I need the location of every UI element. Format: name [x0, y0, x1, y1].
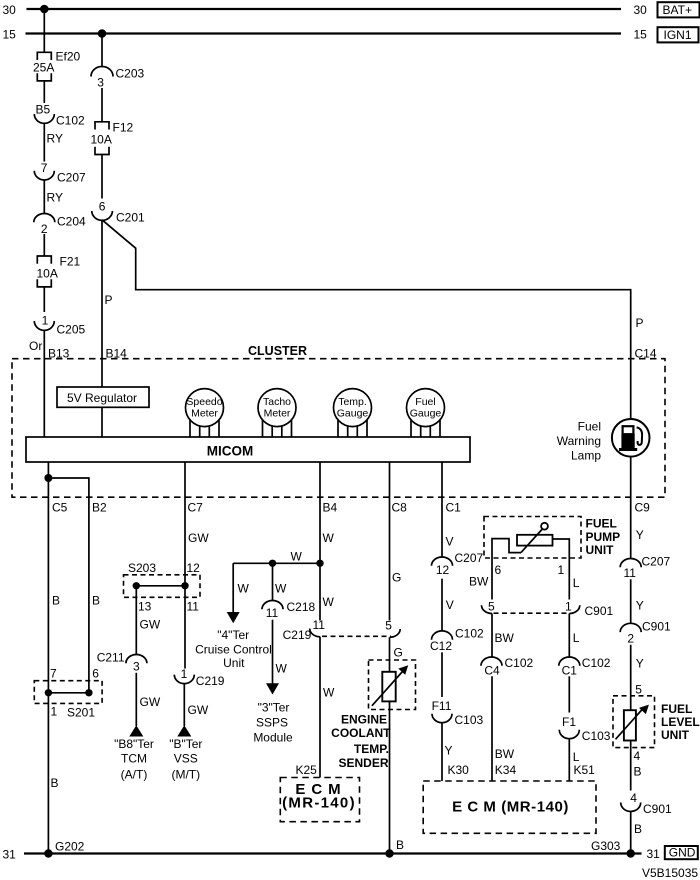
connector C205 pin 1	[34, 314, 85, 337]
wire GW C7 to S203	[185, 462, 209, 669]
svg-text:15: 15	[3, 28, 17, 42]
svg-text:C901: C901	[585, 604, 614, 618]
fuel gauge legs	[411, 407, 440, 437]
svg-text:B: B	[396, 838, 404, 852]
wire branch to B2	[48, 478, 89, 693]
svg-text:C218: C218	[287, 600, 316, 614]
wire Y C103 to ECM K30	[442, 723, 453, 781]
svg-text:(A/T): (A/T)	[121, 767, 148, 781]
IGN1 terminal box	[658, 27, 699, 42]
svg-text:13: 13	[138, 599, 152, 613]
svg-text:S201: S201	[67, 706, 95, 720]
svg-text:11: 11	[266, 606, 279, 620]
connector C102 pin C12	[430, 626, 484, 653]
svg-text:Meter: Meter	[191, 408, 218, 420]
svg-text:W: W	[276, 662, 288, 676]
wire GW C211 to TCM arrow	[136, 673, 161, 726]
svg-text:VSS: VSS	[174, 751, 198, 765]
wire L pin1 to C901	[569, 558, 580, 600]
wire F12 to C201	[101, 155, 103, 199]
svg-text:Temp.: Temp.	[338, 396, 367, 408]
fuse F21 10A	[37, 255, 81, 287]
tachometer gauge	[258, 389, 296, 427]
svg-text:C901: C901	[642, 619, 671, 633]
wire V C1 to C207	[442, 462, 454, 557]
svg-text:CLUSTER: CLUSTER	[248, 344, 307, 358]
svg-text:5V Regulator: 5V Regulator	[67, 391, 137, 405]
connector C103 pin F1	[559, 715, 611, 743]
svg-text:C207: C207	[57, 171, 86, 185]
svg-text:10A: 10A	[37, 267, 58, 281]
svg-text:C203: C203	[116, 67, 145, 81]
svg-text:31: 31	[647, 847, 661, 861]
connector C219 dashed line	[322, 635, 391, 637]
svg-text:GW: GW	[140, 695, 161, 709]
svg-text:B: B	[52, 594, 60, 608]
bus 15 line	[3, 28, 648, 42]
svg-text:E C M (MR-140): E C M (MR-140)	[452, 799, 569, 816]
svg-text:Y: Y	[636, 599, 644, 613]
svg-text:"4"Ter: "4"Ter	[217, 628, 249, 642]
svg-text:PUMP: PUMP	[586, 530, 621, 544]
svg-text:C102: C102	[582, 656, 611, 670]
svg-text:B: B	[92, 594, 100, 608]
wire BW pin6 to C901	[469, 558, 492, 600]
svg-text:C103: C103	[455, 713, 484, 727]
svg-text:30: 30	[634, 3, 648, 17]
ECM (MR-140) box right	[423, 781, 596, 833]
svg-text:UNIT: UNIT	[661, 728, 690, 742]
svg-text:C9: C9	[635, 501, 651, 515]
wire W B4 upper	[320, 462, 335, 621]
svg-text:GW: GW	[188, 703, 209, 717]
node W crossbar at C218 branch	[269, 560, 276, 567]
svg-text:7: 7	[41, 161, 48, 175]
svg-text:L: L	[573, 750, 580, 764]
wire RY C102 to C207	[44, 123, 63, 161]
svg-text:W: W	[238, 581, 250, 595]
svg-text:C8: C8	[392, 501, 408, 515]
svg-text:C211: C211	[97, 651, 125, 665]
svg-text:TCM: TCM	[121, 751, 147, 765]
arrow terminal to VSS	[177, 725, 191, 736]
svg-text:1: 1	[181, 667, 188, 681]
svg-text:TEMP.: TEMP.	[354, 742, 389, 756]
svg-text:Gauge: Gauge	[410, 408, 442, 420]
svg-text:Or: Or	[29, 339, 42, 353]
fuel pump wiper wire	[492, 539, 521, 558]
svg-text:C4: C4	[484, 663, 500, 677]
wire GW S203 to C211	[136, 586, 161, 655]
FUEL PUMP UNIT box	[484, 517, 620, 559]
svg-text:C1: C1	[562, 663, 578, 677]
svg-text:C7: C7	[188, 501, 204, 515]
wire BW C901 to C102	[492, 614, 515, 658]
svg-text:K34: K34	[495, 763, 517, 777]
svg-text:Module: Module	[253, 730, 293, 744]
wire BW C102 to ECM K34	[492, 676, 515, 781]
svg-text:C14: C14	[635, 347, 657, 361]
svg-text:MICOM: MICOM	[207, 444, 254, 459]
arrow terminal to SSPS	[266, 683, 279, 694]
svg-text:B4: B4	[323, 501, 338, 515]
splice S201 box	[34, 681, 102, 720]
svg-text:K25: K25	[296, 763, 318, 777]
svg-text:RY: RY	[47, 132, 63, 146]
temp gauge legs	[338, 407, 367, 437]
svg-text:"B"Ter: "B"Ter	[169, 737, 202, 751]
svg-text:L: L	[573, 576, 580, 590]
wire Y C207 to C901	[631, 579, 644, 623]
connector C901 dashed line	[494, 612, 569, 614]
FUEL LEVEL UNIT box	[613, 696, 700, 748]
svg-text:W: W	[275, 581, 287, 595]
svg-text:B: B	[634, 822, 642, 836]
svg-text:2: 2	[41, 222, 48, 236]
svg-text:15: 15	[634, 28, 648, 42]
S201 left node	[45, 689, 52, 696]
fuel pump resistor wire	[553, 539, 570, 558]
svg-text:G: G	[394, 646, 403, 660]
wire bus30 to fuse Ef20	[43, 9, 45, 52]
svg-text:3: 3	[97, 76, 104, 90]
wire GW C219 to VSS arrow	[184, 684, 209, 727]
connector C203 pin 3	[91, 67, 145, 90]
label ENGINE COOLANT TEMP. SENDER	[331, 712, 391, 770]
wire C5 down to S201	[47, 478, 49, 693]
svg-text:Speedo: Speedo	[186, 396, 222, 408]
svg-text:G303: G303	[591, 839, 621, 853]
label B8 Ter TCM (A/T)	[114, 737, 154, 782]
svg-text:K51: K51	[574, 763, 596, 777]
svg-text:C102: C102	[505, 656, 534, 670]
svg-text:C103: C103	[582, 729, 611, 743]
svg-text:Y: Y	[445, 744, 453, 758]
wire W to cruise control arrow	[233, 563, 249, 612]
bus 30 line	[3, 3, 648, 17]
svg-text:V: V	[446, 534, 454, 548]
svg-text:12: 12	[187, 561, 201, 575]
connector C102 pin B5	[34, 103, 85, 128]
svg-text:6: 6	[92, 667, 99, 681]
S201 splice bar	[48, 692, 89, 694]
GND terminal box	[665, 846, 698, 860]
svg-text:LEVEL: LEVEL	[661, 715, 700, 729]
wire Or C205 to cluster pin B13	[29, 330, 44, 437]
wire W crossbar to cruise branch	[233, 549, 320, 563]
svg-text:"3"Ter: "3"Ter	[258, 700, 290, 714]
svg-text:RY: RY	[47, 191, 63, 205]
node split C5/B2	[44, 474, 52, 482]
svg-text:V5B15035: V5B15035	[642, 866, 698, 880]
svg-text:F12: F12	[113, 121, 134, 135]
wire C102 to C103 F1	[568, 676, 570, 712]
svg-text:B: B	[634, 765, 642, 779]
wire G C219 to ECT sender	[390, 637, 403, 672]
wire F21 to C205	[43, 287, 45, 312]
svg-text:12: 12	[436, 563, 450, 577]
svg-text:7: 7	[50, 667, 57, 681]
svg-text:C102: C102	[56, 114, 85, 128]
svg-text:C204: C204	[57, 215, 86, 229]
svg-text:1: 1	[558, 563, 565, 577]
svg-text:B: B	[51, 776, 59, 790]
wire L C103 to ECM K51	[569, 739, 580, 781]
svg-text:IGN1: IGN1	[664, 28, 692, 42]
wire B ECT sender to bus 31	[390, 701, 405, 853]
connector C207 pin 7	[34, 161, 86, 185]
svg-text:Ef20: Ef20	[56, 50, 81, 64]
fuse Ef20 25A	[33, 50, 81, 81]
tachometer gauge legs	[263, 407, 292, 437]
svg-text:C5: C5	[52, 501, 68, 515]
svg-text:FUEL: FUEL	[586, 517, 617, 531]
connector C901 line pin 1	[565, 599, 614, 618]
fuel warning lamp label	[557, 420, 602, 463]
connector C219 pin 1	[174, 667, 225, 688]
svg-text:BW: BW	[495, 631, 515, 645]
label 4 Ter Cruise Control Unit	[195, 628, 272, 670]
S203 left node	[133, 582, 140, 589]
svg-text:6: 6	[495, 563, 502, 577]
svg-text:BAT+: BAT+	[663, 3, 692, 17]
wire Ef20 to C102	[43, 81, 45, 103]
wire P C201 to cluster pin B14	[102, 220, 113, 437]
svg-text:SENDER: SENDER	[338, 756, 388, 770]
svg-text:GW: GW	[188, 531, 209, 545]
svg-text:C1: C1	[446, 501, 462, 515]
fuse F12 10A	[91, 121, 134, 155]
svg-text:C205: C205	[57, 323, 86, 337]
svg-text:W: W	[291, 549, 303, 563]
svg-text:Gauge: Gauge	[337, 408, 369, 420]
connector C211 pin 3	[97, 651, 147, 674]
svg-text:30: 30	[3, 3, 17, 17]
svg-text:W: W	[323, 595, 335, 609]
svg-text:C12: C12	[430, 639, 452, 653]
svg-text:25A: 25A	[33, 61, 54, 75]
label 3 Ter SSPS Module	[253, 700, 293, 744]
svg-text:"B8"Ter: "B8"Ter	[114, 737, 154, 751]
svg-text:Warning: Warning	[557, 434, 601, 448]
wire W C218 to SSPS arrow	[273, 620, 288, 684]
svg-text:4: 4	[630, 791, 637, 805]
svg-text:1: 1	[42, 314, 49, 328]
svg-text:6: 6	[99, 200, 106, 214]
node B on bus 31	[385, 849, 393, 857]
label B Ter VSS (M/T)	[169, 737, 202, 782]
svg-text:COOLANT: COOLANT	[331, 726, 391, 740]
svg-text:Tacho: Tacho	[263, 396, 291, 408]
wire B S201 to G202	[48, 693, 58, 854]
svg-text:UNIT: UNIT	[586, 543, 615, 557]
svg-text:F11: F11	[432, 699, 452, 713]
svg-text:W: W	[323, 686, 335, 700]
temp gauge	[334, 389, 372, 427]
connector C901 pin 2	[620, 619, 671, 645]
svg-text:SSPS: SSPS	[256, 715, 288, 729]
svg-text:Y: Y	[636, 656, 644, 670]
S201 right node	[85, 689, 92, 696]
5V Regulator box U-reg	[57, 387, 149, 407]
svg-text:B5: B5	[36, 103, 51, 117]
svg-text:2: 2	[627, 631, 634, 645]
arrow terminal to cruise control	[227, 612, 240, 623]
fuel gauge	[407, 389, 445, 427]
svg-text:Lamp: Lamp	[571, 449, 601, 463]
svg-text:C207: C207	[455, 551, 484, 565]
wire RY C207 to C204	[44, 180, 63, 214]
ECT sender variable resistor	[372, 665, 408, 706]
ECM (MR-140) box left	[280, 778, 359, 822]
svg-text:1: 1	[51, 705, 58, 719]
svg-text:P: P	[636, 316, 644, 330]
svg-text:5: 5	[635, 683, 642, 697]
svg-text:3: 3	[133, 659, 140, 673]
svg-text:B13: B13	[48, 347, 70, 361]
connector C102 pin C1	[559, 656, 611, 678]
svg-text:B2: B2	[92, 501, 107, 515]
svg-text:1: 1	[565, 599, 572, 613]
svg-text:11: 11	[623, 566, 636, 580]
svg-text:C201: C201	[116, 211, 145, 225]
wire W to C218	[273, 563, 288, 600]
svg-text:ENGINE: ENGINE	[341, 712, 387, 726]
svg-text:11: 11	[312, 618, 325, 632]
ENGINE COOLANT TEMP SENDER box	[369, 660, 416, 710]
connector C103 pin F11	[432, 699, 484, 727]
wire bus15 to C203	[101, 34, 103, 68]
wire V C207 to C102	[442, 579, 454, 632]
BAT+ terminal box	[658, 2, 700, 17]
connector C218 pin 11	[262, 600, 316, 620]
svg-text:C207: C207	[642, 554, 671, 568]
svg-text:B14: B14	[106, 347, 128, 361]
splice S203 box	[124, 561, 201, 598]
fuel level variable resistor	[616, 705, 649, 741]
ground G202	[44, 840, 84, 858]
speedometer gauge	[186, 389, 224, 427]
connector C207 pin 11	[620, 554, 670, 580]
svg-text:10A: 10A	[91, 133, 112, 147]
svg-text:Unit: Unit	[223, 656, 245, 670]
svg-text:G202: G202	[55, 840, 85, 854]
svg-text:Y: Y	[636, 528, 644, 542]
svg-text:P: P	[105, 293, 113, 307]
connector C901 line pin 5	[482, 599, 495, 613]
svg-text:BW: BW	[495, 747, 515, 761]
connector C204 pin 2	[34, 214, 86, 236]
connector C201 pin 6	[92, 200, 145, 225]
svg-text:C219: C219	[283, 628, 312, 642]
CLUSTER dashed boundary box	[12, 344, 665, 497]
connector C102 pin C4	[481, 656, 534, 678]
S203 splice bar	[136, 585, 185, 587]
fuel warning lamp indicator	[612, 419, 650, 457]
svg-text:4: 4	[634, 749, 641, 763]
connector C207 pin 12	[432, 551, 484, 577]
connector C219 line pin 5	[385, 618, 400, 637]
svg-text:F21: F21	[60, 255, 81, 269]
node: junction of column B on bus 15	[98, 29, 107, 38]
svg-text:Fuel: Fuel	[415, 396, 435, 408]
arrow terminal to TCM	[129, 725, 143, 736]
wire MICOM to node below	[47, 462, 49, 478]
wire P branch C201 to cluster pin C14	[102, 220, 644, 419]
connector C901 pin 4	[621, 791, 672, 816]
speedometer gauge legs	[190, 407, 219, 437]
wire Y C901 to fuel level unit	[631, 645, 644, 711]
wire C203 to fuse F12	[101, 88, 103, 122]
wire lamp to cluster pin C9	[630, 457, 632, 558]
svg-text:F1: F1	[562, 715, 576, 729]
svg-text:C102: C102	[455, 626, 484, 640]
svg-text:GW: GW	[140, 618, 161, 632]
wire B fuel level to C901	[631, 741, 642, 791]
svg-text:C219: C219	[196, 674, 225, 688]
svg-text:31: 31	[3, 847, 17, 861]
S203 right node	[181, 582, 188, 589]
wire W B4 lower to ECM K25	[320, 637, 335, 778]
svg-text:Fuel: Fuel	[578, 420, 601, 434]
svg-text:W: W	[323, 531, 335, 545]
svg-text:G: G	[392, 571, 401, 585]
svg-text:11: 11	[187, 599, 200, 613]
fuel pump sender resistor	[517, 523, 553, 553]
node W crossbar on B4	[316, 560, 323, 567]
bus 31 line	[3, 847, 661, 861]
svg-text:Meter: Meter	[264, 408, 291, 420]
svg-text:V: V	[446, 598, 454, 612]
wire C102 to C103	[441, 652, 443, 697]
wire L C901 to C102	[569, 614, 580, 658]
wire C204 to fuse F21	[43, 234, 45, 256]
svg-text:5: 5	[488, 599, 495, 613]
svg-text:(MR-140): (MR-140)	[282, 795, 356, 812]
svg-text:Cruise Control: Cruise Control	[195, 642, 272, 656]
svg-text:GND: GND	[669, 846, 696, 860]
ground G303	[591, 839, 635, 858]
svg-text:(M/T): (M/T)	[171, 767, 200, 781]
wire B C901 to G303	[631, 811, 642, 853]
svg-text:C901: C901	[643, 802, 672, 816]
svg-text:L: L	[573, 631, 580, 645]
MICOM box	[26, 437, 470, 462]
svg-text:K30: K30	[448, 763, 470, 777]
connector C219 line pin 11	[283, 618, 326, 642]
wire G C8 upper	[390, 462, 402, 621]
node: junction of column A on bus 30	[40, 5, 49, 14]
svg-text:S203: S203	[128, 561, 156, 575]
svg-text:BW: BW	[469, 575, 489, 589]
svg-text:FUEL: FUEL	[661, 702, 692, 716]
